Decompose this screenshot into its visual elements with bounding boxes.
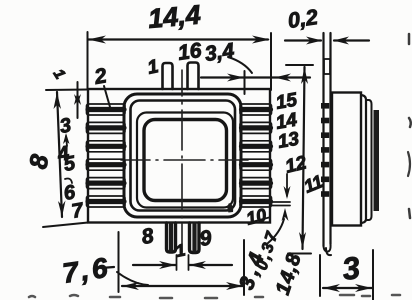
svg-text:8: 8 (24, 152, 54, 171)
IC body outer rounded square (124, 94, 241, 217)
dim 1 bottom (gap between pins 8 and 9) (133, 240, 232, 270)
side view lead cross-sections (black squares on plate) (321, 103, 329, 197)
leader up-arrow from 3,4 / 0,37 labels (268, 208, 289, 243)
svg-text:3,4: 3,4 (203, 39, 235, 66)
key mark near lid bottom-right corner (227, 203, 233, 213)
scan artifacts bottom edge (cut text) (29, 295, 400, 298)
svg-text:5: 5 (62, 152, 78, 176)
dim label 3,4 top with leader (203, 39, 252, 73)
lead pin 11 (right) (240, 178, 272, 189)
dim label 14,4 (147, 0, 202, 34)
svg-text:3: 3 (58, 114, 73, 138)
svg-text:0,37: 0,37 (254, 228, 282, 272)
pin label 12 with down arrow leader (283, 152, 309, 199)
side view dark band (rim) (374, 110, 380, 211)
svg-text:3: 3 (340, 250, 362, 287)
pin label 2 with leader (92, 64, 110, 107)
svg-text:1: 1 (50, 66, 69, 82)
pin label 5 (62, 152, 78, 176)
pin label 6 (62, 181, 78, 205)
lead pin 5 (left) (87, 159, 126, 170)
svg-text:1: 1 (146, 56, 161, 79)
lead pin 10 (right) (240, 196, 272, 207)
lead pin 4 (left) (87, 141, 126, 152)
lead pin 6 (left) (87, 178, 126, 189)
IC lid inner rounded square (144, 120, 227, 201)
svg-text:13: 13 (276, 128, 301, 152)
top pin 1 (163, 63, 173, 89)
bottom pin of side view (326, 248, 331, 255)
side view leads plate (324, 33, 331, 252)
scan artifacts right edge (408, 34, 411, 218)
side view body (stepped can) (332, 93, 372, 226)
pin label 9 (bottom) (198, 226, 214, 251)
pin label 7 (70, 199, 86, 223)
dim label 0,37 (rotated) (254, 228, 282, 272)
lead pin 14 (right) (240, 122, 272, 133)
bottom pin 8 (167, 223, 176, 252)
lead pin 12 (right) (240, 159, 272, 170)
dim label 14,8 (rotated) (272, 250, 306, 298)
dim label 0,2 (286, 5, 319, 33)
side view top pin tick (324, 59, 330, 74)
svg-text:10: 10 (244, 205, 268, 229)
pin label 4 (55, 142, 71, 166)
pin label 1 (top pin) (146, 56, 161, 79)
arrow pointing left at y77 (3,4 dim second arrow tail) (0, 0, 1, 1)
dim label 3,4 bottom (rotated) (235, 246, 270, 292)
lead pin 7 (left) (87, 196, 126, 207)
horizontal centerline (121, 159, 248, 161)
dim 7,6 bottom (61, 232, 244, 295)
svg-text:8: 8 (140, 224, 156, 249)
pin label 1 (top left, rotated) (50, 66, 69, 82)
lead pin 15 (right) (240, 104, 272, 115)
dim 0,37 extension ticks (pin 10 edges) (272, 202, 290, 206)
dim 3 bottom right (side view body width) (320, 250, 373, 300)
vertical centerline (181, 70, 183, 252)
svg-text:9: 9 (198, 226, 214, 251)
dim label 11 (rotated) (301, 171, 326, 197)
top pin 16 (188, 63, 199, 90)
svg-text:7,6: 7,6 (61, 252, 113, 289)
package flange (main top view outline) (88, 89, 270, 223)
wire: left extension of flange top edge (dim 8 top ext) (46, 89, 88, 92)
svg-text:14,4: 14,4 (147, 0, 202, 34)
pin label 8 (bottom) (140, 224, 156, 249)
lead pin 2 (left) (87, 104, 126, 115)
dim 1 left: small dimension arrows at flange top (74, 82, 81, 118)
pin labels 15 14 13 right column (274, 89, 301, 152)
pin label 3 with up arrow (58, 114, 73, 146)
wire: left extension of flange bottom edge (dim 8 bottom ext) (43, 223, 88, 228)
pin label 16 (176, 39, 203, 65)
svg-text:14,8: 14,8 (272, 250, 306, 298)
dim 0,2 arrows (side view plate thickness) (285, 37, 369, 45)
dim label 8 (rotated) (24, 152, 54, 171)
lead pin 3 (left) (87, 122, 126, 133)
tick under 5 (65, 179, 72, 184)
svg-text:0,2: 0,2 (286, 5, 319, 33)
IC body third outline (can step) (137, 113, 233, 208)
dim 14,8: vertical dimension line right of main view (286, 65, 313, 254)
svg-text:2: 2 (92, 64, 109, 89)
dim 8 left: vertical dimension line (54, 92, 66, 217)
dim 14,4 top: dimension line with arrows (88, 32, 272, 90)
svg-text:16: 16 (176, 39, 203, 65)
dim 3,4 top: dimension line with arrows (201, 71, 310, 94)
lead pin 13 (right) (240, 141, 272, 152)
svg-text:7: 7 (70, 199, 86, 223)
pin label 10 with underline leader (244, 205, 269, 229)
bottom pin 9 (190, 223, 200, 253)
IC body second outline (131, 101, 236, 211)
